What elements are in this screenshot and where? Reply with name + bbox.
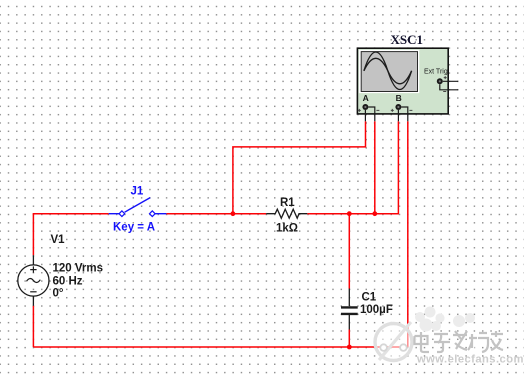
svg-text:XSC1: XSC1 [391, 32, 424, 47]
scope trace large sine [364, 52, 412, 90]
wire V1 minus to bottom rail [32, 306, 34, 347]
wire scope A minus down to R1 output node [374, 121, 376, 213]
oscilloscope XSC1 [357, 48, 458, 121]
resistor R1 [266, 209, 307, 218]
svg-text:Ext Trig: Ext Trig [424, 69, 448, 76]
svg-text:C1: C1 [362, 291, 377, 303]
terminal A [362, 104, 368, 110]
junction at C1 bottom rail [347, 345, 352, 350]
watermark chinese characters [416, 332, 505, 353]
svg-text:B: B [396, 93, 402, 103]
terminal B pins [398, 107, 407, 121]
ext trig pins [440, 81, 458, 90]
junction at A-minus node [372, 211, 377, 216]
svg-text:A: A [363, 93, 369, 103]
wire scope B minus down to bottom rail [407, 121, 409, 347]
svg-text:V1: V1 [51, 234, 66, 246]
svg-text:J1: J1 [131, 186, 144, 198]
svg-text:1kΩ: 1kΩ [276, 223, 298, 235]
svg-text:Key = A: Key = A [113, 222, 155, 234]
wire R1 output node down to C1 top [348, 214, 350, 289]
wire switch J1 to R1 left lead [166, 213, 266, 215]
watermark paw [415, 307, 475, 332]
terminal A pins [365, 107, 374, 121]
terminal B [395, 104, 401, 110]
svg-text:120 Vrms: 120 Vrms [53, 263, 104, 275]
wire C1 bottom to bottom rail [348, 330, 350, 348]
svg-text:www.elecfans.com: www.elecfans.com [416, 354, 524, 366]
wire V1 plus to switch J1 (left vertical and top horizontal) [33, 214, 108, 256]
junction at R1-C1 node [347, 211, 352, 216]
svg-text:100µF: 100µF [360, 304, 393, 316]
junction at switch-R1 node [231, 211, 236, 216]
capacitor C1 [341, 289, 358, 330]
voltage source V1 [18, 255, 49, 306]
ext trig terminal [437, 78, 443, 84]
svg-text:60 Hz: 60 Hz [53, 275, 83, 287]
svg-text:R1: R1 [280, 197, 295, 209]
wire node after switch up to scope A plus [233, 121, 366, 213]
wire bottom rail [33, 346, 407, 348]
switch J1 [109, 198, 167, 217]
watermark logo elecfans [375, 307, 524, 367]
svg-text:0°: 0° [53, 287, 64, 299]
scope trace small sine [364, 58, 412, 84]
wire R1 right lead to scope B plus [307, 121, 398, 213]
